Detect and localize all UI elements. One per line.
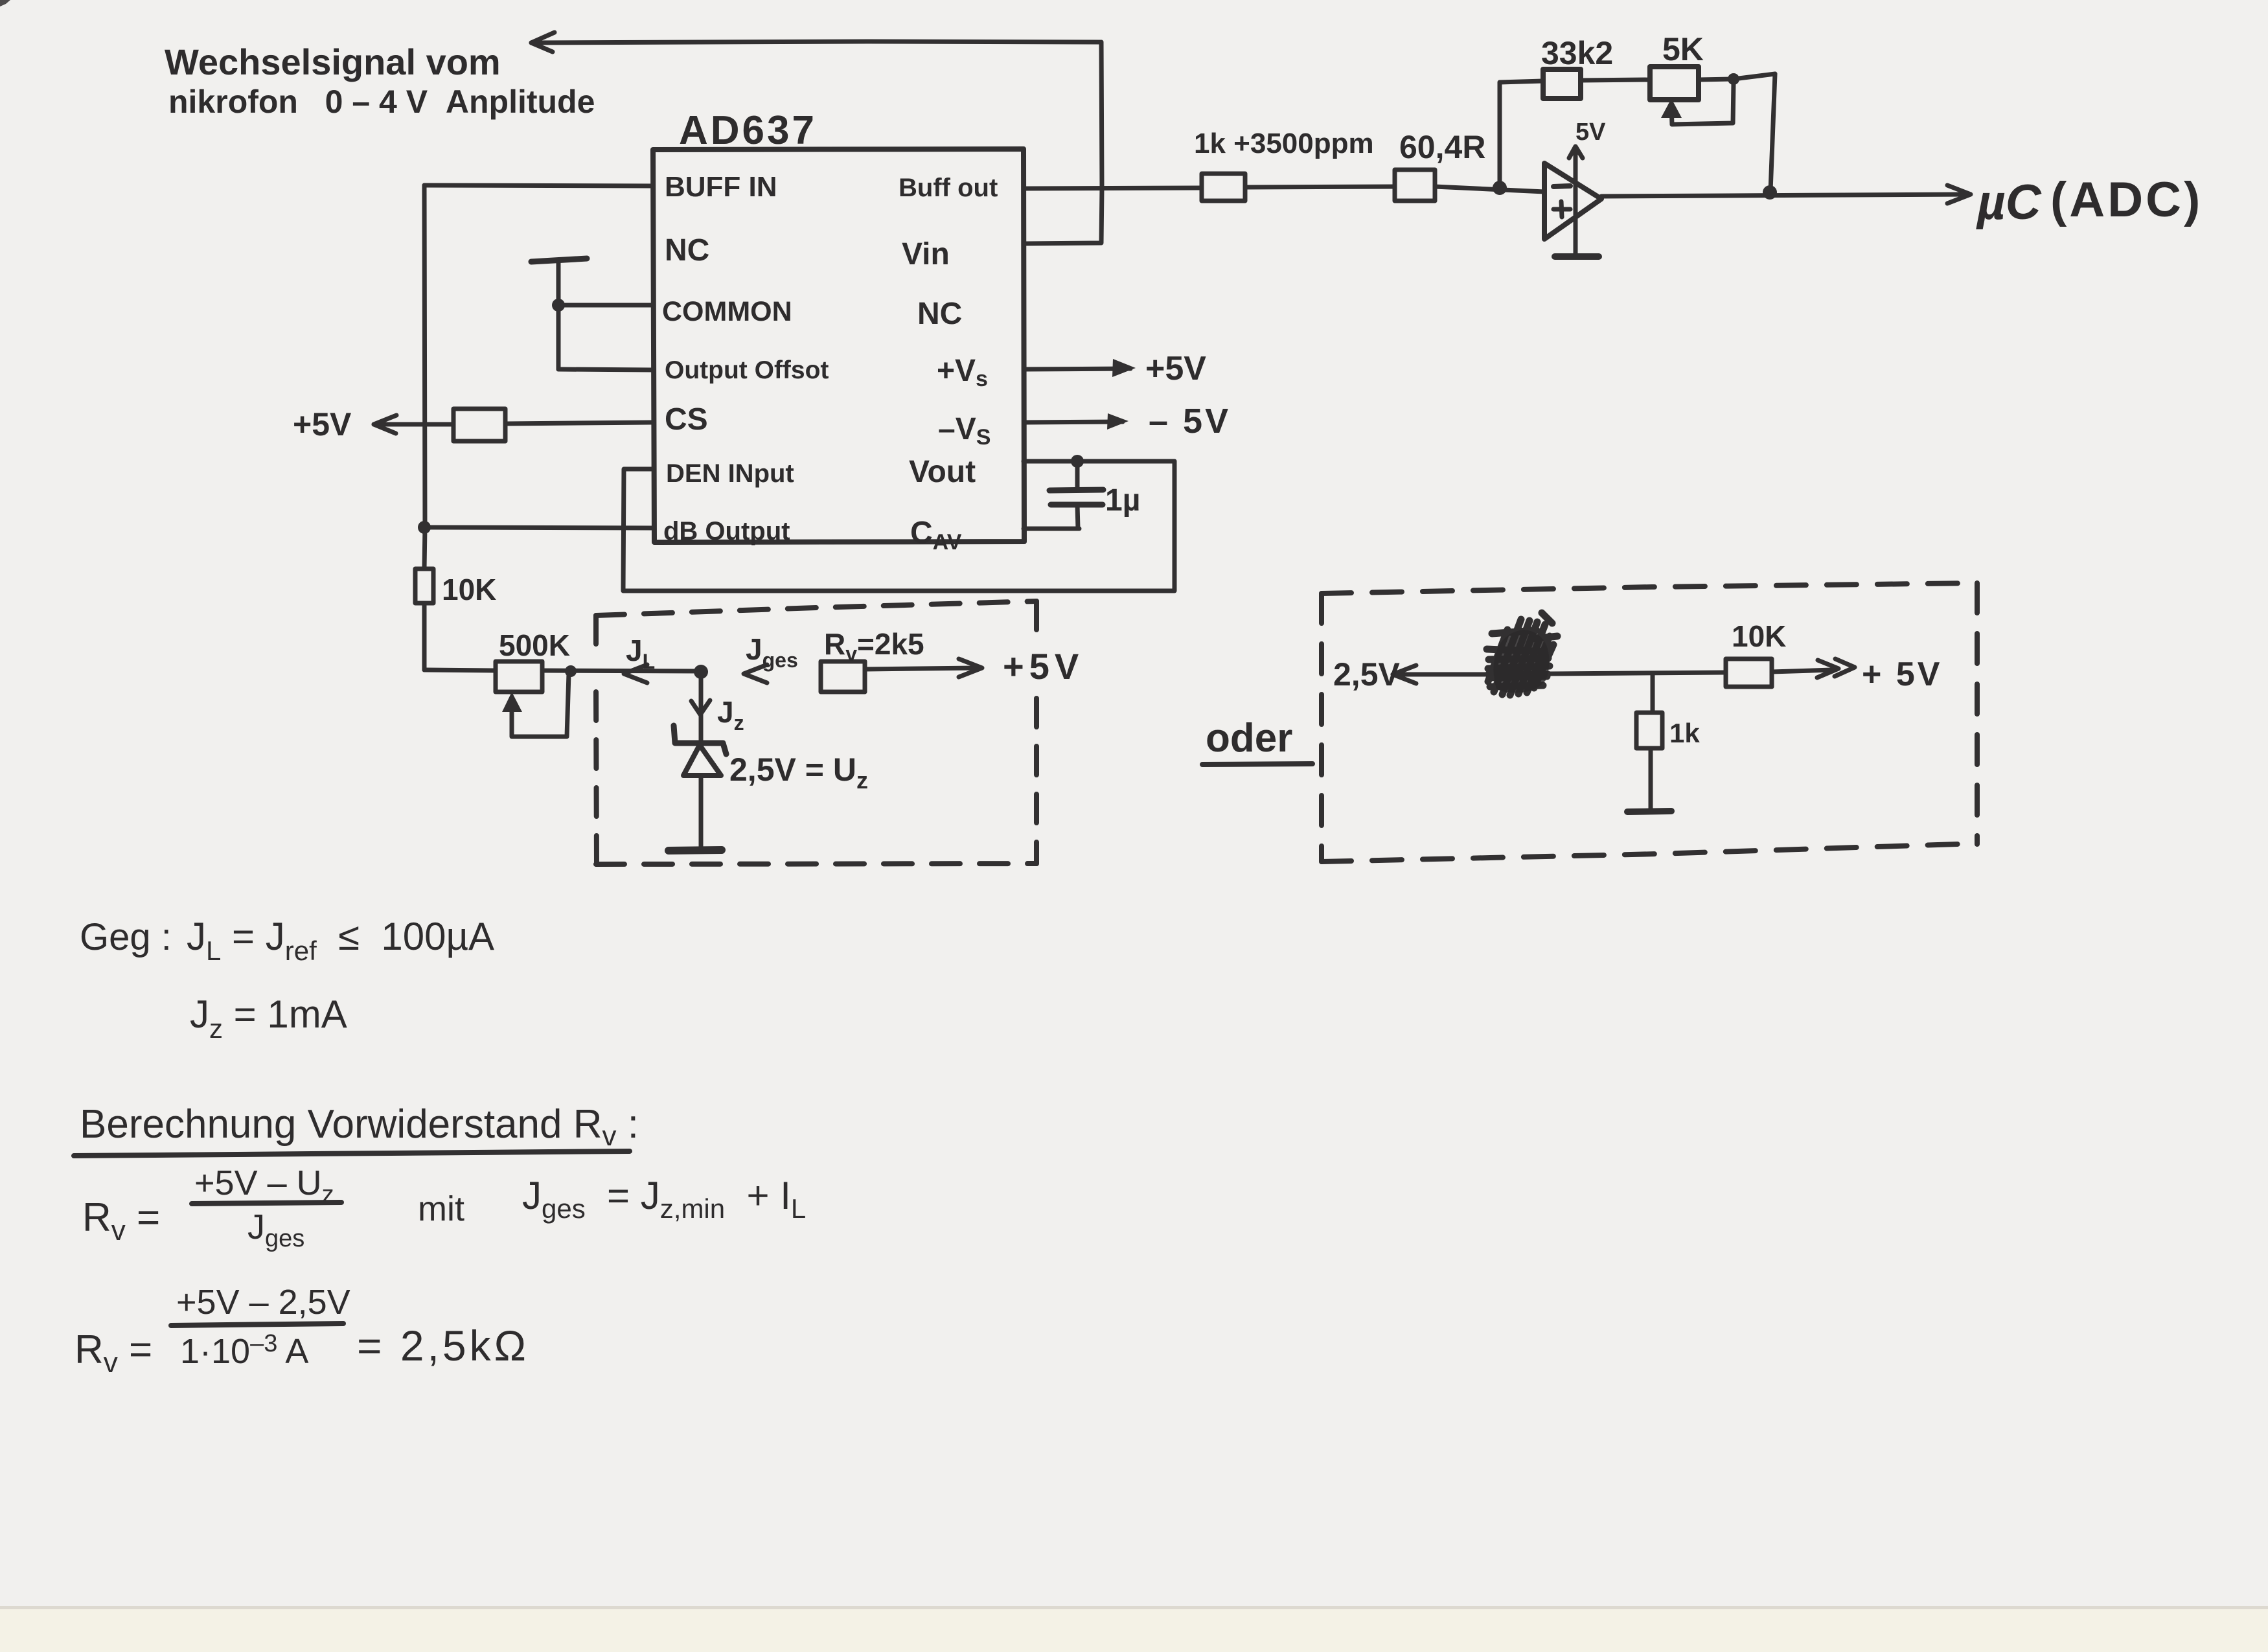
svg-text:10K: 10K <box>442 573 496 606</box>
svg-text:NC: NC <box>665 233 709 268</box>
svg-text:dB Output: dB Output <box>663 517 790 545</box>
svg-text:2,5V: 2,5V <box>1333 656 1401 693</box>
svg-text:CS: CS <box>665 402 708 437</box>
svg-text:NC: NC <box>917 297 962 331</box>
svg-text:Vin: Vin <box>902 237 950 271</box>
svg-text:Berechnung Vorwiderstand Rv :: Berechnung Vorwiderstand Rv : <box>80 1102 639 1152</box>
svg-text:60,4R: 60,4R <box>1399 129 1485 165</box>
svg-text:– 5V: – 5V <box>1149 402 1231 441</box>
svg-text:1µ: 1µ <box>1105 483 1140 518</box>
svg-text:(ADC): (ADC) <box>2050 172 2203 227</box>
svg-text:500K: 500K <box>499 628 570 662</box>
svg-text:DEN INput: DEN INput <box>666 459 794 488</box>
svg-text:BUFF IN: BUFF IN <box>665 171 777 203</box>
svg-text:oder: oder <box>1206 716 1292 761</box>
svg-text:Output Offsot: Output Offsot <box>665 356 829 384</box>
svg-text:5K: 5K <box>1662 31 1704 67</box>
svg-text:Geg :: Geg : <box>80 916 172 958</box>
svg-text:= 2,5kΩ: = 2,5kΩ <box>357 1322 529 1370</box>
svg-text:Wechselsignal vom: Wechselsignal vom <box>165 41 501 82</box>
svg-text:+5V – 2,5V: +5V – 2,5V <box>176 1283 350 1322</box>
svg-text:µC: µC <box>1976 175 2042 230</box>
svg-text:mit: mit <box>418 1189 464 1228</box>
svg-text:1·10–3 A: 1·10–3 A <box>180 1330 308 1371</box>
svg-text:AD637: AD637 <box>679 108 817 153</box>
svg-text:+5V: +5V <box>293 406 352 442</box>
svg-text:33k2: 33k2 <box>1541 35 1613 71</box>
svg-text:10K: 10K <box>1732 619 1786 653</box>
svg-text:Buff out: Buff out <box>899 174 998 202</box>
svg-text:COMMON: COMMON <box>662 296 792 327</box>
svg-text:+ 5V: + 5V <box>1862 656 1942 693</box>
svg-text:5V: 5V <box>1575 119 1606 146</box>
svg-text:2,5V = Uz: 2,5V = Uz <box>729 751 868 794</box>
svg-text:+5V: +5V <box>1003 646 1084 687</box>
svg-text:1k: 1k <box>1669 718 1700 748</box>
svg-text:nikrofon 0 – 4 V Anplitude: nikrofon 0 – 4 V Anplitude <box>168 84 595 120</box>
svg-text:+5V: +5V <box>1145 350 1206 387</box>
svg-text:Rv=2k5: Rv=2k5 <box>824 627 924 665</box>
svg-text:Vout: Vout <box>909 455 976 489</box>
svg-text:1k +3500ppm: 1k +3500ppm <box>1194 128 1374 159</box>
